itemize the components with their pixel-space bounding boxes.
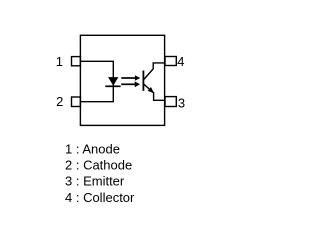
svg-text:4: 4: [177, 54, 184, 69]
svg-text:2: 2: [56, 94, 63, 109]
svg-text:3: 3: [178, 95, 185, 110]
svg-text:1 : Anode: 1 : Anode: [65, 141, 120, 156]
svg-text:3 : Emitter: 3 : Emitter: [65, 174, 125, 189]
svg-text:2 : Cathode: 2 : Cathode: [65, 158, 132, 173]
svg-text:4 : Collector: 4 : Collector: [65, 190, 135, 205]
svg-text:1: 1: [56, 54, 63, 69]
